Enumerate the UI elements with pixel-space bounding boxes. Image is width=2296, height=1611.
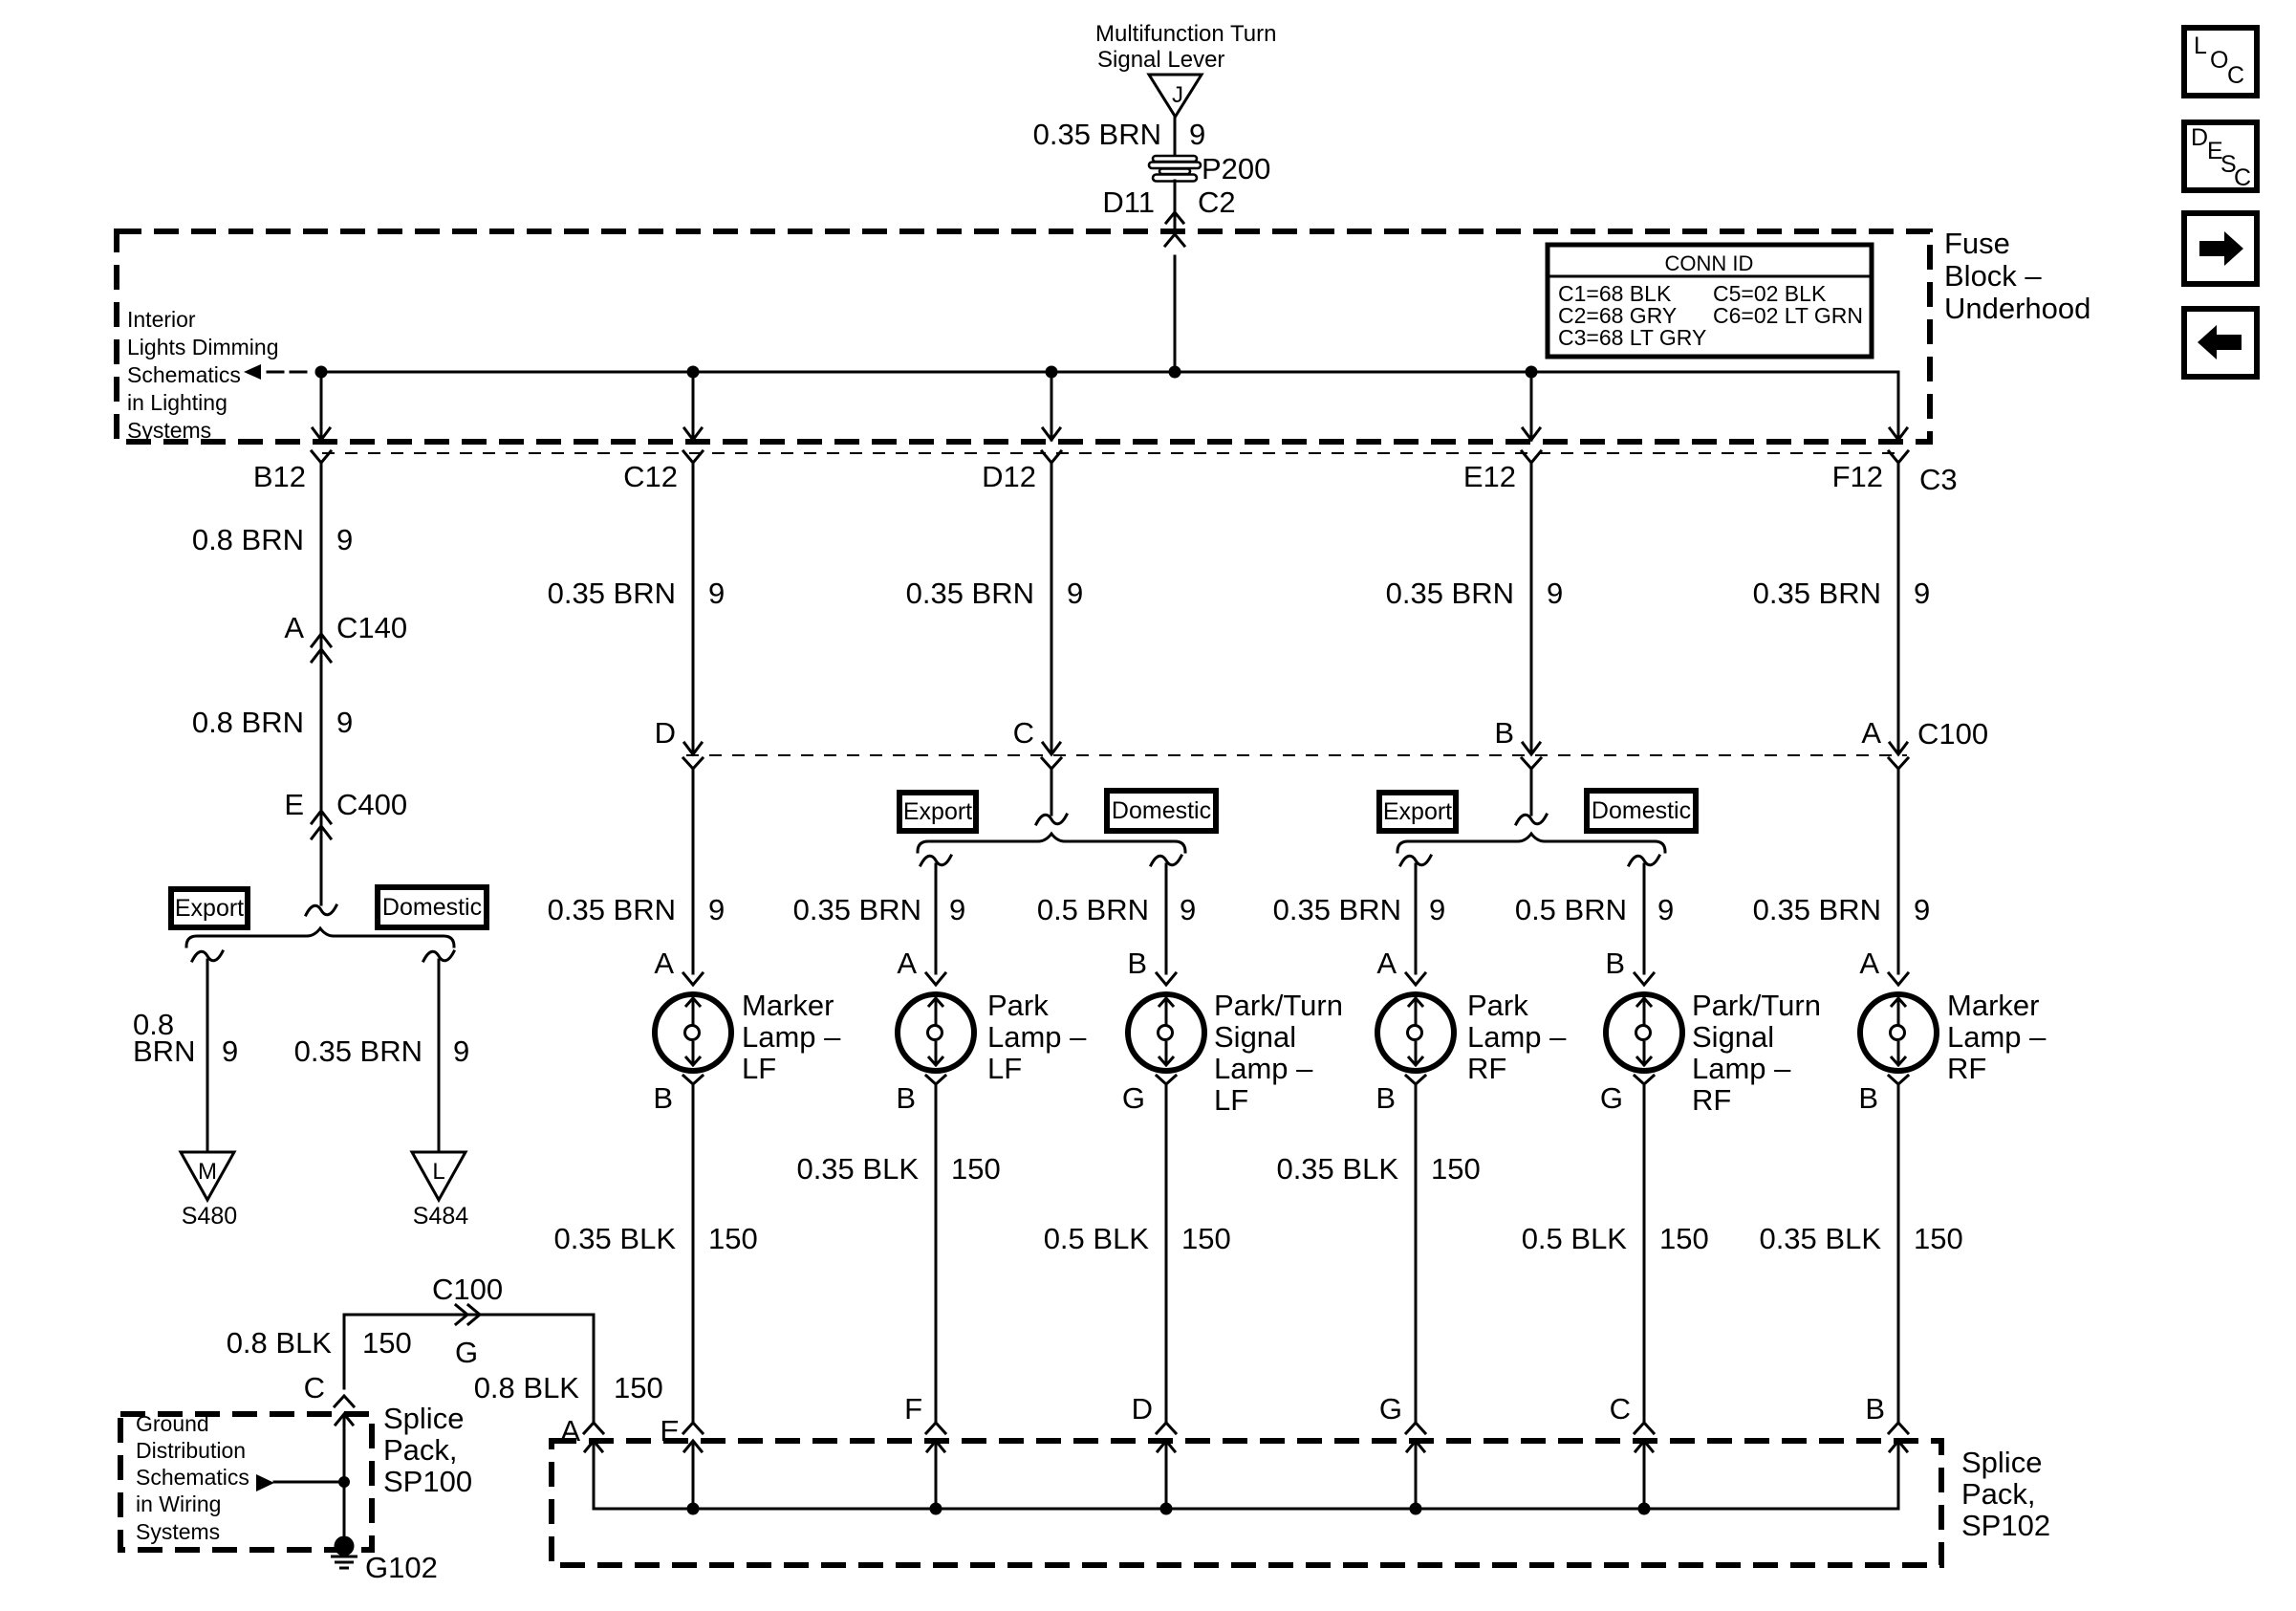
icon box LOC — [2184, 28, 2257, 96]
svg-text:RF: RF — [1692, 1083, 1731, 1117]
svg-text:0.35 BLK: 0.35 BLK — [1759, 1222, 1881, 1255]
connector symbol C100 pin B — [1522, 743, 1541, 769]
svg-text:Signal: Signal — [1692, 1020, 1774, 1054]
svg-text:C: C — [1610, 1392, 1631, 1426]
svg-text:G: G — [455, 1336, 478, 1369]
svg-text:F: F — [904, 1392, 922, 1426]
svg-text:RF: RF — [1947, 1052, 1986, 1085]
svg-text:B: B — [1375, 1081, 1396, 1115]
connector symbol SP102 pin D — [1157, 1423, 1176, 1451]
svg-text:G: G — [1379, 1392, 1402, 1426]
park/turn signal lamp LF bulb — [1128, 973, 1204, 1084]
connector dashed line below fuse block — [322, 452, 1902, 454]
svg-text:9: 9 — [1657, 893, 1674, 926]
svg-text:B: B — [653, 1081, 673, 1115]
wire 0.5 BLK 150 park/turn LF to SP102 — [1165, 1084, 1168, 1424]
svg-text:9: 9 — [1914, 893, 1930, 926]
svg-text:C12: C12 — [623, 460, 678, 493]
svg-text:Domestic: Domestic — [1592, 797, 1691, 824]
svg-text:C100: C100 — [432, 1273, 503, 1306]
svg-text:9: 9 — [336, 523, 353, 556]
bus wire inside SP102 — [594, 1443, 1898, 1509]
svg-text:150: 150 — [951, 1152, 1001, 1186]
svg-text:O: O — [2210, 47, 2228, 74]
svg-text:9: 9 — [1189, 118, 1205, 151]
svg-text:J: J — [1172, 82, 1183, 108]
park lamp RF bulb — [1377, 973, 1454, 1084]
svg-text:D: D — [2191, 124, 2208, 151]
svg-text:C6=02 LT GRN: C6=02 LT GRN — [1713, 303, 1863, 328]
connector symbol SP102 pin A — [584, 1423, 603, 1451]
svg-text:Park: Park — [987, 989, 1049, 1022]
wire 0.35 BRN 9 to park lamp LF — [935, 864, 938, 973]
connector symbol at fuse block bottom edge pin F12 — [1889, 428, 1908, 463]
svg-text:0.8 BRN: 0.8 BRN — [192, 523, 304, 556]
wire fuse block output D12 — [1051, 372, 1053, 440]
junction on SP102 bus at pin G — [1410, 1503, 1422, 1515]
svg-text:C: C — [2227, 62, 2244, 89]
connector symbol at fuse block bottom edge pin C12 — [683, 428, 703, 463]
wire 0.35 BRN 9 from lever J to P200 — [1174, 117, 1177, 157]
svg-text:Park/Turn: Park/Turn — [1692, 989, 1821, 1022]
svg-text:9: 9 — [949, 893, 965, 926]
svg-text:0.35 BLK: 0.35 BLK — [553, 1222, 676, 1255]
svg-text:SP100: SP100 — [383, 1465, 472, 1498]
squiggle top of park/turn lamp RF wire — [1629, 856, 1659, 865]
connector symbol entering splice pack SP100 — [335, 1396, 354, 1425]
svg-text:Lamp –: Lamp – — [987, 1020, 1087, 1054]
svg-text:0.35 BRN: 0.35 BRN — [1386, 577, 1514, 610]
svg-text:A: A — [1376, 947, 1397, 980]
svg-text:E: E — [284, 788, 304, 821]
junction on SP102 bus at pin E — [687, 1503, 700, 1515]
svg-text:C: C — [1013, 716, 1034, 750]
option split squiggle D12 — [1036, 815, 1067, 824]
wire 0.8 BLK 150 from SP100 through C100 pin G — [344, 1315, 594, 1424]
svg-text:B: B — [1858, 1081, 1878, 1115]
arrow to interior lights dimming schematics — [244, 364, 261, 380]
svg-text:0.35 BRN: 0.35 BRN — [1753, 893, 1881, 926]
option box Export — [1379, 793, 1456, 831]
svg-text:F12: F12 — [1832, 460, 1883, 493]
connector symbol SP102 pin G — [1406, 1423, 1425, 1451]
wire 0.8 BRN 9 to splice S480 — [206, 960, 209, 1152]
wire bus inside fuse block — [321, 371, 1898, 374]
svg-text:Schematics: Schematics — [127, 362, 241, 387]
option box Export — [171, 889, 248, 927]
connector symbol at fuse block bottom edge pin B12 — [312, 428, 331, 463]
svg-text:Fuse: Fuse — [1944, 227, 2010, 260]
svg-text:Pack,: Pack, — [1961, 1477, 2036, 1511]
svg-text:in Lighting: in Lighting — [127, 390, 227, 415]
svg-text:0.35 BRN: 0.35 BRN — [294, 1034, 422, 1068]
svg-text:M: M — [198, 1159, 217, 1185]
svg-text:B12: B12 — [253, 460, 306, 493]
svg-text:150: 150 — [1431, 1152, 1481, 1186]
svg-text:Signal Lever: Signal Lever — [1097, 47, 1224, 73]
wire 0.35 BLK 150 marker lamp RF to SP102 — [1897, 1084, 1900, 1424]
svg-text:Splice: Splice — [1961, 1446, 2042, 1479]
svg-text:B: B — [1494, 716, 1514, 750]
svg-text:G: G — [1600, 1081, 1623, 1115]
junction on SP102 bus at pin C — [1638, 1503, 1651, 1515]
wire D12 below C100 to option split — [1051, 770, 1053, 815]
svg-text:LF: LF — [742, 1052, 776, 1085]
inline connector C100 pin G chevrons — [456, 1305, 480, 1324]
svg-text:9: 9 — [1547, 577, 1563, 610]
svg-text:0.5 BLK: 0.5 BLK — [1522, 1222, 1628, 1255]
svg-text:0.8 BLK: 0.8 BLK — [227, 1326, 333, 1360]
marker lamp LF bulb — [655, 973, 731, 1084]
svg-text:LF: LF — [987, 1052, 1022, 1085]
wire 0.35 BRN 9 D12 to C100 pin C — [1051, 463, 1053, 753]
svg-text:LF: LF — [1214, 1083, 1248, 1117]
park/turn signal lamp RF bulb — [1606, 973, 1682, 1084]
connector symbol at fuse block top edge — [1165, 212, 1184, 246]
connector symbol C100 pin C — [1042, 743, 1061, 769]
svg-text:S480: S480 — [182, 1203, 237, 1230]
squiggle top of park lamp RF wire — [1400, 856, 1431, 865]
wire 0.35 BRN 9 to splice S484 — [438, 960, 441, 1152]
svg-text:C3: C3 — [1919, 463, 1958, 496]
option brace splitting export/domestic — [186, 928, 454, 947]
icon box arrow left — [2184, 309, 2257, 377]
wire inside SP102 from pin E — [692, 1443, 695, 1509]
svg-text:9: 9 — [1914, 577, 1930, 610]
svg-text:C140: C140 — [336, 611, 407, 644]
svg-text:in Wiring: in Wiring — [136, 1491, 221, 1516]
svg-text:Schematics: Schematics — [136, 1465, 249, 1490]
fuse block underhood dashed outline — [117, 231, 1930, 442]
svg-text:Lamp –: Lamp – — [742, 1020, 841, 1054]
wire inside SP102 from pin G — [1415, 1443, 1418, 1509]
svg-text:P200: P200 — [1202, 152, 1270, 185]
svg-text:B: B — [896, 1081, 916, 1115]
svg-text:Systems: Systems — [136, 1519, 220, 1544]
svg-text:9: 9 — [708, 893, 725, 926]
svg-text:0.8 BRN: 0.8 BRN — [192, 706, 304, 739]
svg-text:D11: D11 — [1102, 185, 1155, 219]
svg-text:9: 9 — [1429, 893, 1445, 926]
svg-text:150: 150 — [614, 1371, 663, 1404]
connector triangle J (multifunction turn signal lever) — [1149, 75, 1202, 117]
junction on bus at P200 wire — [1169, 366, 1181, 379]
svg-text:150: 150 — [708, 1222, 758, 1255]
connector symbol SP102 pin B — [1889, 1423, 1908, 1451]
svg-text:Domestic: Domestic — [1112, 797, 1211, 824]
marker lamp RF bulb — [1860, 973, 1937, 1084]
arrow to ground distribution schematics — [256, 1474, 274, 1491]
splice pack SP102 dashed outline — [552, 1441, 1941, 1565]
svg-text:A: A — [654, 947, 674, 980]
svg-text:Distribution: Distribution — [136, 1438, 246, 1463]
svg-text:0.35 BLK: 0.35 BLK — [1276, 1152, 1398, 1186]
svg-text:Pack,: Pack, — [383, 1433, 458, 1467]
svg-text:A: A — [284, 611, 304, 644]
ground G102 — [335, 1536, 355, 1557]
wire 0.5 BLK 150 park/turn RF to SP102 — [1643, 1084, 1646, 1424]
svg-text:A: A — [1859, 947, 1879, 980]
svg-text:0.5 BRN: 0.5 BRN — [1515, 893, 1627, 926]
svg-text:Multifunction Turn: Multifunction Turn — [1095, 21, 1276, 47]
svg-text:C: C — [2234, 164, 2251, 191]
junction on bus at C12 wire — [687, 366, 700, 379]
option box Domestic — [1107, 791, 1216, 831]
wire 0.35 BLK 150 park lamp LF to SP102 — [935, 1084, 938, 1424]
wire fuse block output B12 — [320, 372, 323, 440]
svg-text:Splice: Splice — [383, 1402, 464, 1435]
svg-text:S484: S484 — [413, 1203, 468, 1230]
connector symbol SP102 pin F — [926, 1423, 945, 1451]
svg-text:E: E — [660, 1414, 680, 1448]
CONN ID table — [1548, 245, 1872, 357]
svg-text:Lamp –: Lamp – — [1467, 1020, 1567, 1054]
grommet P200 — [1149, 156, 1201, 182]
svg-text:B: B — [1605, 947, 1625, 980]
svg-text:0.35 BRN: 0.35 BRN — [548, 893, 676, 926]
svg-text:BRN: BRN — [133, 1034, 195, 1068]
svg-text:0.35 BLK: 0.35 BLK — [796, 1152, 919, 1186]
connector symbol C100 pin D — [683, 743, 703, 769]
svg-text:A: A — [897, 947, 917, 980]
connector symbol at fuse block bottom edge pin E12 — [1522, 428, 1541, 463]
svg-text:Interior: Interior — [127, 307, 196, 332]
wire fuse block output C12 — [692, 372, 695, 440]
svg-text:0.35 BRN: 0.35 BRN — [793, 893, 921, 926]
splice pack SP100 dashed outline — [120, 1414, 372, 1550]
svg-text:C3=68 LT GRY: C3=68 LT GRY — [1558, 325, 1706, 350]
svg-text:G102: G102 — [365, 1551, 438, 1584]
svg-text:9: 9 — [708, 577, 725, 610]
squiggle top of domestic branch wire — [423, 951, 454, 961]
wire inside SP102 from pin F — [935, 1443, 938, 1509]
svg-text:0.35 BRN: 0.35 BRN — [1273, 893, 1401, 926]
wire inside SP102 from pin D — [1165, 1443, 1168, 1509]
option brace export/domestic RF — [1397, 834, 1665, 852]
junction on SP102 bus at pin F — [930, 1503, 942, 1515]
svg-text:9: 9 — [1067, 577, 1083, 610]
wire to ground distribution reference — [274, 1481, 344, 1484]
svg-text:Signal: Signal — [1214, 1020, 1296, 1054]
svg-text:Lamp –: Lamp – — [1692, 1052, 1791, 1085]
option box Export — [899, 793, 976, 831]
connector C100 dashed line — [686, 754, 1907, 756]
wire 0.35 BLK 150 marker lamp LF to SP102 — [692, 1084, 695, 1424]
svg-text:Underhood: Underhood — [1944, 292, 2090, 325]
svg-text:0.35 BRN: 0.35 BRN — [1753, 577, 1881, 610]
junction on bus at D12 wire — [1046, 366, 1058, 379]
svg-text:0.8 BLK: 0.8 BLK — [474, 1371, 580, 1404]
svg-text:G: G — [1122, 1081, 1145, 1115]
svg-text:9: 9 — [453, 1034, 469, 1068]
wire 0.35 BRN 9 E12 to C100 pin B — [1530, 463, 1533, 753]
svg-text:Marker: Marker — [742, 989, 834, 1022]
wire 0.5 BRN 9 to park/turn signal lamp RF — [1643, 864, 1646, 973]
svg-text:Block –: Block – — [1944, 259, 2042, 293]
svg-text:0.35 BRN: 0.35 BRN — [1033, 118, 1161, 151]
option brace export/domestic LF — [918, 834, 1185, 852]
wire inside SP102 from pin C — [1643, 1443, 1646, 1509]
option split squiggle E12 — [1516, 815, 1547, 824]
icon box arrow right — [2184, 213, 2257, 284]
wire 0.35 BRN 9 C12 to C100 pin D — [692, 463, 695, 753]
svg-text:9: 9 — [336, 706, 353, 739]
svg-text:Park/Turn: Park/Turn — [1214, 989, 1343, 1022]
connector symbol at fuse block bottom edge pin D12 — [1042, 428, 1061, 463]
wire P200 to fuse block C2 pin D11 — [1174, 181, 1177, 231]
svg-text:Lights Dimming: Lights Dimming — [127, 335, 279, 359]
inline connector C140 chevrons — [312, 634, 331, 662]
option box Domestic — [378, 887, 487, 927]
junction on bus at B12 wire — [315, 366, 328, 379]
svg-text:Lamp –: Lamp – — [1214, 1052, 1313, 1085]
svg-text:Domestic: Domestic — [382, 894, 482, 921]
svg-text:150: 150 — [1181, 1222, 1231, 1255]
wire 0.35 BRN 9 to marker lamp LF — [692, 770, 695, 973]
svg-text:0.35 BRN: 0.35 BRN — [906, 577, 1034, 610]
junction in SP100 — [338, 1476, 350, 1488]
svg-text:0.5 BRN: 0.5 BRN — [1037, 893, 1149, 926]
svg-text:Marker: Marker — [1947, 989, 2039, 1022]
squiggle top of park/turn lamp LF wire — [1151, 856, 1181, 865]
junction on bus at E12 wire — [1526, 366, 1538, 379]
svg-text:A: A — [1861, 716, 1881, 750]
svg-text:Export: Export — [903, 798, 972, 825]
option box Domestic — [1587, 791, 1696, 831]
svg-text:Export: Export — [175, 895, 244, 922]
option split squiggle at B12 wire end — [306, 905, 336, 915]
svg-text:9: 9 — [1180, 893, 1196, 926]
connector symbol C100 pin A — [1889, 743, 1908, 769]
wire E12 below C100 to option split — [1530, 770, 1533, 815]
svg-text:SP102: SP102 — [1961, 1509, 2050, 1542]
svg-text:0.35 BRN: 0.35 BRN — [548, 577, 676, 610]
svg-text:D: D — [1132, 1392, 1153, 1426]
svg-text:D12: D12 — [982, 460, 1036, 493]
svg-text:C: C — [304, 1371, 325, 1404]
svg-text:A: A — [560, 1414, 580, 1448]
svg-text:9: 9 — [222, 1034, 238, 1068]
wire inside fuse block from C2 D11 to bus — [1174, 256, 1177, 372]
wire 0.8 BRN 9 B12 column — [320, 463, 323, 904]
svg-text:L: L — [432, 1159, 444, 1185]
svg-text:B: B — [1865, 1392, 1885, 1426]
wire 0.35 BLK 150 park lamp RF to SP102 — [1415, 1084, 1418, 1424]
junction on SP102 bus at pin D — [1160, 1503, 1173, 1515]
splice triangle M S480 — [181, 1152, 234, 1200]
svg-text:150: 150 — [1659, 1222, 1709, 1255]
svg-text:C400: C400 — [336, 788, 407, 821]
svg-text:Ground: Ground — [136, 1411, 209, 1436]
wire 0.35 BRN 9 to park lamp RF — [1415, 864, 1418, 973]
svg-text:B: B — [1127, 947, 1147, 980]
wire inside SP100 to ground G102 — [343, 1416, 346, 1546]
wire fuse block output E12 — [1530, 372, 1533, 440]
squiggle top of export branch wire — [192, 951, 223, 961]
svg-text:Systems: Systems — [127, 418, 211, 443]
connector symbol SP102 pin E — [683, 1423, 703, 1451]
svg-text:L: L — [2194, 33, 2207, 59]
svg-text:E12: E12 — [1463, 460, 1516, 493]
svg-text:0.5 BLK: 0.5 BLK — [1044, 1222, 1150, 1255]
svg-text:Lamp –: Lamp – — [1947, 1020, 2047, 1054]
inline connector C400 chevrons — [312, 811, 331, 838]
wire 0.35 BRN 9 to marker lamp RF — [1897, 770, 1900, 973]
svg-text:D: D — [655, 716, 676, 750]
svg-text:150: 150 — [362, 1326, 412, 1360]
svg-text:C2: C2 — [1198, 185, 1236, 219]
svg-text:150: 150 — [1914, 1222, 1963, 1255]
svg-text:RF: RF — [1467, 1052, 1506, 1085]
svg-text:C100: C100 — [1917, 717, 1988, 751]
svg-text:CONN ID: CONN ID — [1665, 251, 1754, 275]
svg-text:Export: Export — [1383, 798, 1452, 825]
splice triangle L S484 — [412, 1152, 466, 1200]
connector symbol SP102 pin C — [1635, 1423, 1654, 1451]
icon box DESC — [2184, 122, 2257, 190]
park lamp LF bulb — [898, 973, 974, 1084]
wire 0.5 BRN 9 to park/turn signal lamp LF — [1165, 864, 1168, 973]
wire 0.35 BRN 9 F12 to C100 pin A — [1897, 463, 1900, 753]
squiggle top of park lamp LF wire — [921, 856, 951, 865]
svg-text:Park: Park — [1467, 989, 1528, 1022]
wire fuse block output F12 — [1897, 372, 1900, 440]
